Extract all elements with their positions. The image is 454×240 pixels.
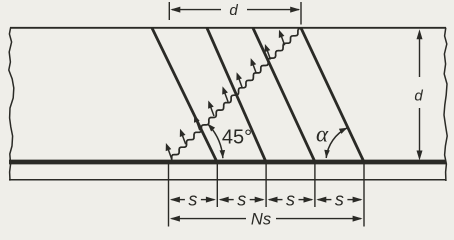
top dim right line+arrow: [247, 9, 299, 11]
svg-text:d: d: [414, 88, 423, 105]
top dim right tick: [300, 2, 302, 25]
svg-text:s: s: [237, 189, 246, 209]
top dim left line+arrow: [172, 9, 221, 11]
ray 1: [152, 28, 217, 162]
right dim lower line+arrow: [419, 108, 421, 153]
svg-text:Ns: Ns: [251, 211, 271, 229]
alpha arc lower arrowhead: [324, 150, 330, 158]
top dim left tick: [168, 2, 170, 20]
top surface line: [10, 27, 446, 29]
wavefront arrow 9: [281, 35, 285, 45]
s dimension segment 3: [269, 199, 282, 201]
bottom tick 3: [265, 164, 267, 207]
bottom tick 2: [216, 164, 218, 207]
wavefront arrow 2: [182, 134, 186, 144]
s dimension segment 2: [220, 199, 233, 201]
s dimension segment 4: [318, 199, 332, 201]
wavefront arrow 3: [196, 120, 200, 130]
wavefront arrow 6: [239, 77, 243, 87]
wavefront arrow 5: [224, 92, 228, 102]
45 arc upper arrowhead: [208, 124, 216, 132]
ray 2: [207, 28, 266, 162]
Ns dim left line+arrow: [172, 218, 247, 220]
svg-text:45°: 45°: [222, 127, 252, 149]
left broken edge: [9, 28, 14, 181]
ray 3: [253, 28, 315, 162]
right dim upper line+arrow: [419, 36, 421, 77]
bottom layer line: [9, 179, 446, 181]
45 arc lower arrowhead: [220, 150, 226, 158]
alpha angle arc: [326, 128, 347, 158]
bottom tick 1 (long): [168, 164, 170, 227]
wavefront wavy line: [168, 28, 302, 162]
wavefront arrow 7: [253, 63, 257, 73]
wavefront arrow 1: [168, 148, 172, 158]
svg-text:s: s: [286, 189, 295, 209]
svg-text:s: s: [335, 189, 344, 209]
svg-text:α: α: [316, 122, 329, 147]
svg-text:d: d: [229, 2, 238, 19]
Ns dim right line+arrow: [276, 218, 361, 220]
svg-text:s: s: [188, 189, 197, 209]
bottom tick 5 (long): [363, 164, 365, 227]
reflector interface (thick line): [9, 160, 446, 165]
wavefront arrow 8: [267, 49, 271, 59]
ray 4: [301, 28, 364, 162]
right broken edge: [444, 28, 447, 181]
s dimension segment 1: [172, 199, 185, 201]
alpha arc upper arrowhead: [339, 128, 347, 134]
bottom tick 4: [314, 164, 316, 207]
wavefront arrow 4: [210, 106, 214, 116]
45 degree angle arc: [208, 124, 223, 158]
